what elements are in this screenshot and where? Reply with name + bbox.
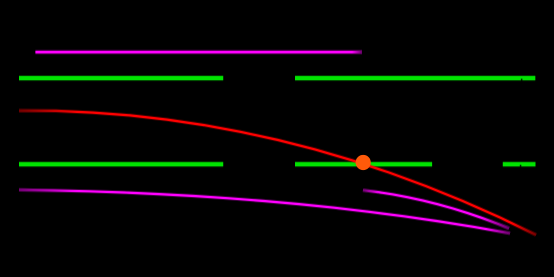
- magenta curve 1 tail fade: [486, 229, 510, 233]
- lower green dash micro-notch: [520, 165, 522, 169]
- upper green dash micro-notch: [521, 79, 523, 83]
- lower green dashed line: dash 2: [295, 162, 432, 166]
- red curve halo: [19, 111, 536, 235]
- red curve left-start fade: [19, 111, 78, 112]
- magenta curve 2 start fade: [363, 190, 380, 192]
- top magenta line right-end fade: [352, 51, 362, 54]
- upper green dashed line: dash 2: [295, 76, 535, 80]
- upper green dashed line halo: [19, 75, 535, 81]
- lower green dashed line: dash 1: [19, 162, 223, 166]
- top magenta horizontal line: [35, 51, 362, 54]
- magenta curve 2 halo: [363, 190, 509, 228]
- magenta curve 1 (starts at left edge): [19, 190, 510, 233]
- top magenta horizontal line (halo): [35, 50, 362, 55]
- magenta curve 1 halo: [19, 190, 510, 233]
- magenta curve 1 left-start fade: [19, 190, 78, 191]
- orange marker dot: [356, 155, 371, 170]
- magenta curve 2 (starts under marker): [363, 190, 509, 228]
- magenta curve 2 tail fade: [480, 217, 509, 228]
- upper green dashed line: dash 1: [19, 76, 223, 80]
- lower green dashed line: dash 3: [503, 162, 536, 166]
- lower green dashed line halo: [19, 161, 536, 167]
- red curve: [19, 111, 536, 235]
- red curve tail fade: [512, 223, 536, 235]
